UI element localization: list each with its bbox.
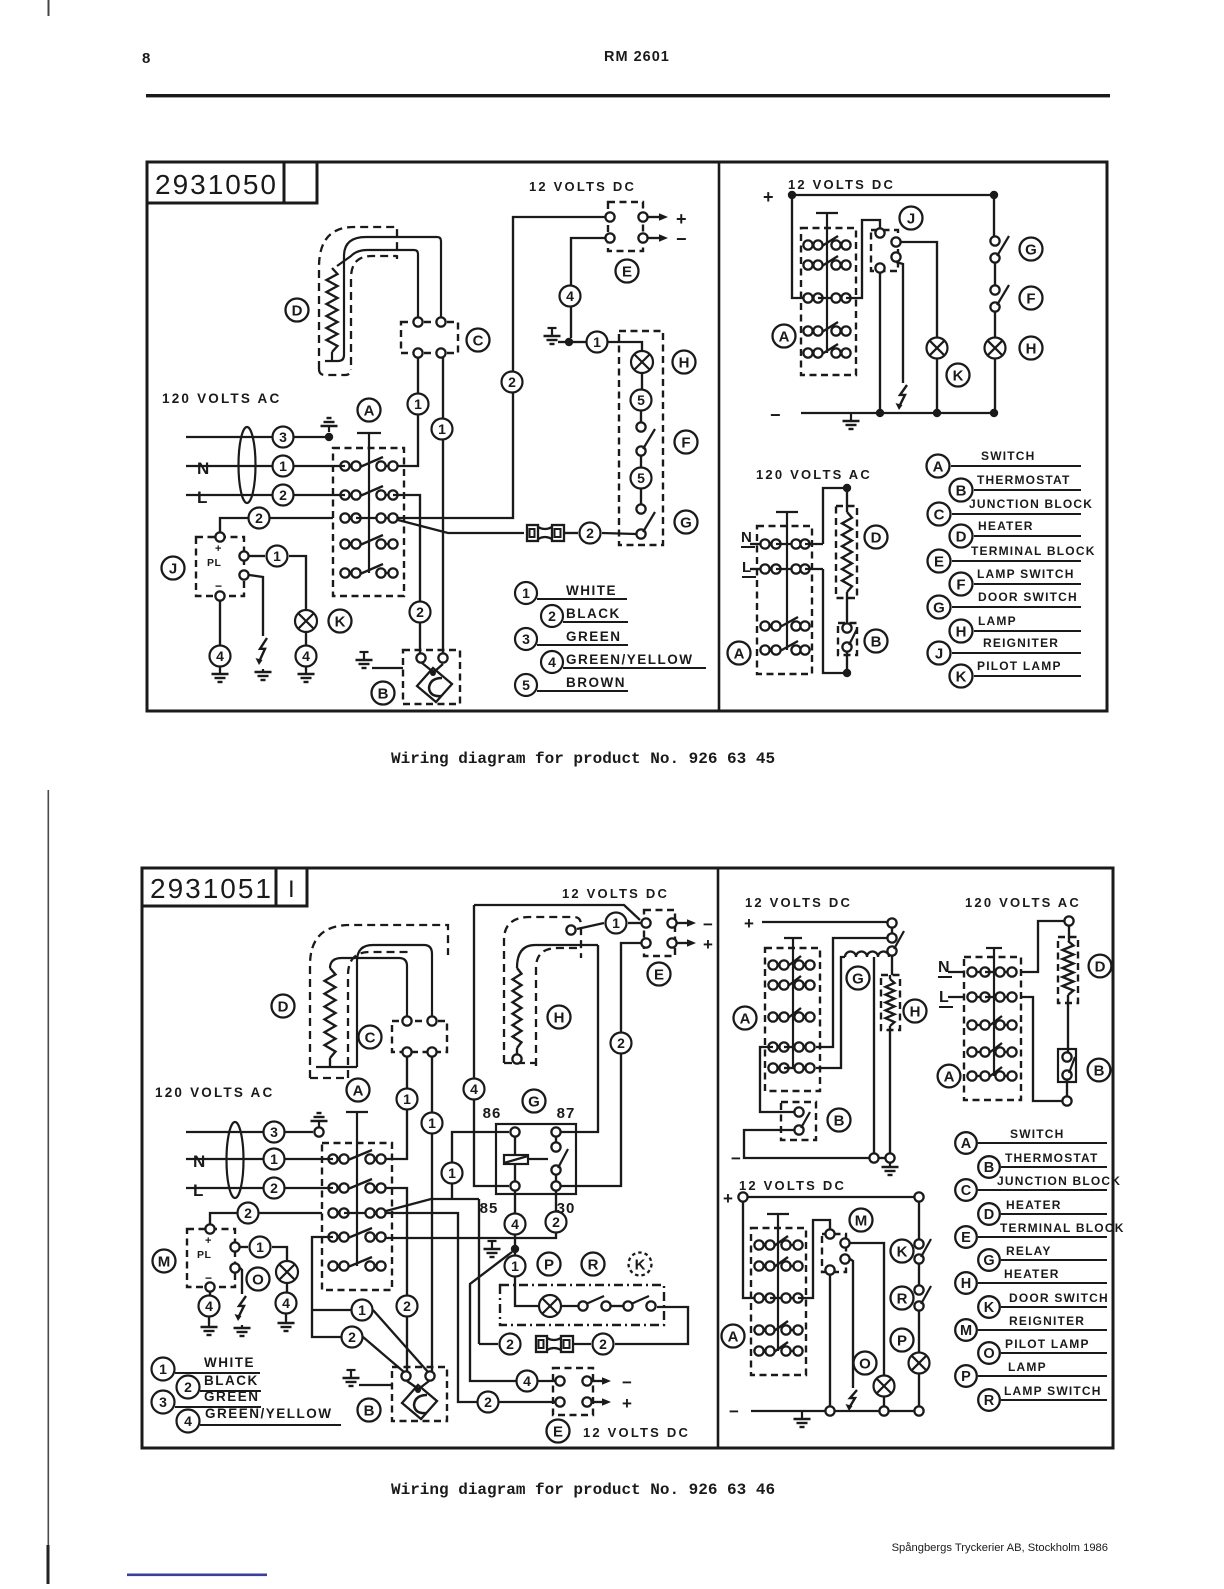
heater D dashed box (AC): [836, 506, 857, 598]
top connector: [1064, 916, 1073, 925]
svg-text:G: G: [933, 599, 945, 616]
svg-text:E: E: [961, 1230, 971, 1246]
ground at igniter B: [360, 651, 369, 653]
wire: E plus to A row3 (black 2): [398, 217, 605, 518]
legend B: THERMOSTAT: [978, 1156, 1000, 1178]
label A: [722, 1325, 745, 1348]
svg-text:J: J: [935, 645, 943, 662]
label E: [616, 260, 639, 283]
svg-text:B: B: [378, 685, 389, 702]
igniter B burner symbol: [422, 663, 432, 671]
svg-text:HEATER: HEATER: [1006, 1198, 1062, 1212]
wire: D to thermostat B: [846, 598, 848, 624]
wire: heater H to relay 87: [561, 945, 598, 1132]
svg-text:85: 85: [480, 1200, 499, 1217]
svg-text:LAMP SWITCH: LAMP SWITCH: [1004, 1384, 1102, 1398]
svg-text:PILOT LAMP: PILOT LAMP: [1005, 1337, 1090, 1351]
label H: [548, 1006, 571, 1029]
ground at input 3: [318, 1121, 320, 1127]
ground at igniter B: [347, 1369, 356, 1371]
svg-text:12 VOLTS DC: 12 VOLTS DC: [562, 886, 669, 901]
legend R: LAMP SWITCH: [978, 1389, 1000, 1411]
label E: [648, 963, 671, 986]
svg-text:SWITCH: SWITCH: [1010, 1127, 1065, 1141]
wire: node to E lower minus (green/yellow 4): [470, 1252, 516, 1381]
label A: [358, 399, 381, 422]
switch A dashed box: [964, 957, 1021, 1100]
svg-text:D: D: [956, 528, 967, 545]
label P: [538, 1253, 561, 1276]
svg-text:A: A: [933, 458, 944, 475]
svg-text:A: A: [961, 1136, 972, 1152]
wire: node to lamp chain (white 1): [573, 341, 586, 343]
terminal block E upper: [644, 910, 675, 956]
label D: [286, 299, 309, 322]
svg-text:2: 2: [270, 1180, 278, 1196]
wire: M to minus rail: [829, 1275, 831, 1406]
ground under lamp K: [305, 671, 307, 674]
junction block C: [392, 1021, 447, 1052]
svg-text:2: 2: [506, 1336, 514, 1352]
wire: B to bottom node: [846, 652, 848, 673]
ground at input 3: [328, 426, 330, 432]
svg-text:2: 2: [617, 1035, 625, 1051]
svg-text:C: C: [961, 1183, 972, 1199]
heater H lead: [517, 945, 598, 968]
spark gap (reigniter electrode): [259, 638, 267, 662]
reigniter J dashed box: [871, 230, 898, 271]
svg-text:B: B: [834, 1112, 845, 1129]
wire: mains N input (1): [186, 465, 345, 467]
svg-text:K: K: [897, 1243, 908, 1260]
svg-text:3: 3: [159, 1394, 167, 1410]
svg-text:E: E: [654, 966, 664, 983]
svg-text:F: F: [956, 576, 965, 593]
wire: blue pen mark bottom: [127, 1574, 267, 1577]
wire: DC plus rail: [792, 194, 994, 196]
legend A: SWITCH: [927, 455, 950, 478]
ground under M: [208, 1324, 210, 1327]
door switch G: [636, 504, 645, 513]
ground under spark: [262, 669, 264, 672]
heater D tube: [325, 237, 441, 361]
heater D element: [842, 512, 852, 592]
svg-text:F: F: [681, 434, 690, 451]
plus rail: [762, 921, 887, 923]
label H: [673, 351, 696, 374]
svg-text:4: 4: [205, 1298, 213, 1314]
reigniter M dashed box: [822, 1234, 846, 1272]
svg-text:+: +: [723, 1189, 733, 1208]
svg-text:2: 2: [552, 1214, 560, 1230]
svg-text:+: +: [703, 935, 713, 954]
svg-text:2: 2: [348, 1329, 356, 1345]
wire: AC top node: [843, 484, 851, 492]
legend C: JUNCTION BLOCK: [955, 1179, 977, 1201]
wire: mains green input (3): [186, 1131, 313, 1133]
svg-text:G: G: [852, 970, 864, 987]
lamp assembly HFG dashed box: [619, 331, 663, 545]
svg-text:E: E: [934, 553, 944, 570]
wire: coil to A row5: [816, 957, 845, 1068]
legend D: HEATER: [978, 1203, 1000, 1225]
svg-text:1: 1: [438, 421, 446, 437]
svg-text:12 VOLTS DC: 12 VOLTS DC: [529, 179, 636, 194]
ground under spark: [241, 1325, 243, 1328]
label B: [828, 1109, 851, 1132]
svg-text:+: +: [763, 187, 774, 207]
svg-text:2931051: 2931051: [150, 873, 273, 904]
svg-text:4: 4: [470, 1081, 478, 1097]
svg-text:K: K: [335, 613, 346, 630]
wire: relay 85 to ground node (green/yellow 4): [514, 1191, 516, 1214]
svg-text:PL: PL: [207, 557, 222, 569]
heater D element (resistor zigzag): [327, 268, 338, 352]
lamp H: [631, 351, 653, 373]
label F: [1020, 287, 1043, 310]
wire 5 brown: [641, 373, 643, 390]
switch A actuator: [357, 432, 381, 434]
svg-text:2: 2: [184, 1379, 192, 1395]
heater H dashed box: [881, 975, 900, 1030]
svg-text:2931050: 2931050: [155, 169, 278, 200]
svg-text:R: R: [588, 1256, 599, 1273]
switch A actuator: [816, 212, 838, 214]
svg-text:A: A: [353, 1082, 364, 1099]
svg-text:4: 4: [511, 1216, 519, 1232]
bottom title block 2931051: [142, 868, 276, 906]
spark gap: [849, 1390, 857, 1408]
ground node junction: [565, 338, 573, 346]
label O: [247, 1268, 270, 1291]
svg-text:1: 1: [273, 548, 281, 564]
svg-text:N: N: [193, 1152, 205, 1171]
wire 5 brown lower: [640, 456, 642, 468]
svg-text:1: 1: [159, 1361, 167, 1377]
switch A actuator: [346, 1111, 368, 1113]
svg-text:C: C: [365, 1029, 376, 1046]
ground under lamp O: [285, 1320, 287, 1323]
svg-text:3: 3: [279, 429, 287, 445]
svg-text:5: 5: [522, 677, 530, 693]
lamp switch F: [994, 263, 996, 285]
wire: B to L row: [1066, 1080, 1068, 1096]
svg-text:LAMP: LAMP: [978, 614, 1017, 628]
wire: E plus to relay 30 (black 2): [621, 943, 641, 1033]
svg-text:−: −: [215, 579, 222, 593]
wire: mains L input (2): [186, 494, 345, 496]
svg-text:B: B: [984, 1160, 994, 1176]
svg-text:B: B: [956, 482, 967, 499]
A lower poles: [972, 1024, 985, 1026]
svg-text:O: O: [859, 1355, 871, 1372]
wire: J minus to ground (4): [219, 601, 221, 645]
cable sheath ellipse: [227, 1122, 244, 1198]
ground symbol: [488, 1240, 497, 1242]
terminal block E: [608, 202, 643, 251]
wire: E minus stub with connector (white 1): [606, 913, 627, 934]
heater H element: [886, 979, 895, 1026]
switch A dashed box: [751, 1228, 806, 1375]
ground on minus rail: [850, 413, 852, 421]
wire: A row3 to reigniter M: [798, 1220, 830, 1298]
wire: left margin scan line: [48, 790, 50, 1584]
legend C: JUNCTION BLOCK: [928, 503, 951, 526]
legend M: REIGNITER: [955, 1319, 977, 1341]
wire: B to minus rail: [744, 1130, 869, 1158]
switch A poles: [773, 964, 784, 966]
legend K: PILOT LAMP: [950, 665, 973, 688]
svg-text:2: 2: [548, 608, 556, 624]
svg-text:RELAY: RELAY: [1006, 1244, 1052, 1258]
svg-text:2: 2: [599, 1336, 607, 1352]
svg-text:H: H: [910, 1003, 921, 1020]
lamp circuit P R K dashed box: [500, 1285, 664, 1325]
wire: A row3 to reigniter J: [846, 220, 880, 298]
svg-text:K: K: [635, 1256, 646, 1273]
wire: A row4 left branch: [312, 1237, 341, 1337]
label G: [523, 1090, 546, 1113]
label C: [359, 1026, 382, 1049]
svg-text:DOOR SWITCH: DOOR SWITCH: [978, 590, 1078, 604]
wire: C to igniter B right (white 1): [442, 358, 444, 653]
label H: [904, 1000, 927, 1023]
svg-text:P: P: [961, 1369, 971, 1385]
svg-text:1: 1: [612, 915, 620, 931]
crimp connector: [527, 525, 538, 541]
svg-text:1: 1: [256, 1239, 264, 1255]
label B: [865, 630, 888, 653]
door switch K: [918, 1202, 920, 1239]
terminal E minus lead: [677, 922, 687, 924]
svg-text:D: D: [984, 1207, 994, 1223]
crimp connector: [536, 1336, 547, 1352]
svg-text:B: B: [871, 633, 882, 650]
wire: A row3 to door switch G (black 2) via connector: [398, 520, 524, 533]
legend: wire colours: [152, 1358, 175, 1381]
wire: A row2 to igniter B left (black 2): [393, 495, 420, 653]
wire: M to spark electrode: [850, 1259, 853, 1388]
svg-text:2: 2: [244, 1205, 252, 1221]
svg-text:A: A: [740, 1010, 751, 1027]
svg-text:Wiring diagram for product No.: Wiring diagram for product No. 926 63 46: [391, 1481, 775, 1499]
svg-text:A: A: [734, 645, 745, 662]
svg-text:2: 2: [403, 1298, 411, 1314]
wire: plus rail to A row3: [792, 195, 808, 298]
svg-text:THERMOSTAT: THERMOSTAT: [977, 473, 1071, 487]
svg-text:L: L: [742, 559, 751, 576]
label B: [372, 682, 395, 705]
ground node: [511, 1245, 519, 1253]
svg-text:+: +: [676, 209, 687, 229]
svg-text:2: 2: [508, 374, 516, 390]
pilot lamp K: [295, 610, 317, 632]
svg-text:R: R: [897, 1290, 908, 1307]
svg-text:A: A: [944, 1068, 955, 1085]
svg-text:+: +: [622, 1394, 632, 1413]
svg-text:−: −: [205, 1271, 212, 1285]
legend A: SWITCH: [955, 1132, 977, 1154]
label O: [854, 1352, 877, 1375]
label D: [1089, 955, 1112, 978]
wire: J to minus rail: [879, 273, 881, 413]
svg-text:F: F: [1026, 290, 1035, 307]
legend E: TERMINAL BLOCK: [928, 550, 951, 573]
svg-text:L: L: [197, 488, 207, 507]
switch A poles: [759, 1244, 770, 1246]
svg-text:−: −: [770, 405, 781, 425]
label K: [629, 1253, 652, 1276]
svg-text:E: E: [553, 1423, 563, 1440]
svg-text:L: L: [193, 1181, 203, 1200]
svg-text:1: 1: [593, 334, 601, 350]
svg-text:P: P: [897, 1332, 907, 1349]
svg-text:4: 4: [282, 1295, 290, 1311]
wire: relay 30 to A row4 (black 2): [555, 1191, 557, 1212]
label E: [547, 1420, 570, 1443]
A lower poles: [765, 625, 776, 627]
svg-text:12 VOLTS DC: 12 VOLTS DC: [745, 895, 852, 910]
svg-text:R: R: [984, 1393, 995, 1409]
svg-text:3: 3: [522, 631, 530, 647]
label M: [850, 1209, 873, 1232]
wire: A row3 to E lower plus (black 2): [386, 1213, 477, 1402]
svg-text:H: H: [956, 623, 967, 640]
ground under rail: [889, 1163, 891, 1167]
lamp switch F: [636, 422, 645, 431]
wire: J to spark electrode: [249, 575, 263, 636]
svg-text:D: D: [292, 302, 303, 319]
svg-text:3: 3: [270, 1124, 278, 1140]
svg-text:120 VOLTS AC: 120 VOLTS AC: [756, 467, 872, 482]
svg-text:O: O: [252, 1271, 264, 1288]
label K: [329, 610, 352, 633]
svg-text:+: +: [205, 1235, 211, 1247]
svg-text:C: C: [934, 506, 945, 523]
door switch G: [993, 195, 995, 236]
terminal E minus lead: [648, 237, 659, 239]
label F: [675, 431, 698, 454]
svg-text:A: A: [364, 402, 375, 419]
label A: [728, 642, 751, 665]
wire: row3 branch to lamp circuit (black 2): [478, 1199, 480, 1338]
label J: [162, 557, 185, 580]
svg-text:LAMP: LAMP: [1008, 1360, 1047, 1374]
svg-text:D: D: [278, 998, 289, 1015]
switch A dashed box: [322, 1143, 392, 1290]
wire: lamp K to ground (4): [305, 632, 307, 645]
svg-text:REIGNITER: REIGNITER: [983, 636, 1059, 650]
heater H dashed enclosure: [504, 917, 581, 1063]
svg-text:−: −: [622, 1373, 632, 1392]
svg-text:A: A: [728, 1328, 739, 1345]
svg-text:M: M: [855, 1212, 868, 1229]
spark gap: [899, 385, 907, 407]
lamp switch R: [918, 1264, 920, 1285]
svg-text:4: 4: [548, 654, 556, 670]
svg-text:B: B: [364, 1402, 375, 1419]
heater D tube leads: [357, 945, 432, 1067]
legend F: LAMP SWITCH: [950, 573, 973, 596]
svg-text:Spångbergs Tryckerier AB, Stoc: Spångbergs Tryckerier AB, Stockholm 1986: [892, 1542, 1108, 1554]
svg-text:RM 2601: RM 2601: [604, 49, 670, 65]
wire: heater to minus rail: [889, 1030, 891, 1153]
wire: plus to A row3: [743, 1202, 758, 1298]
svg-text:M: M: [158, 1253, 171, 1270]
svg-text:+: +: [744, 914, 754, 933]
connector chain to door switch: [887, 933, 896, 942]
svg-text:TERMINAL BLOCK: TERMINAL BLOCK: [1000, 1221, 1125, 1235]
wire: C to switch A row1 (white 1): [398, 358, 418, 466]
door switch contact: [887, 946, 896, 955]
svg-text:1: 1: [448, 1165, 456, 1181]
svg-text:L: L: [939, 989, 949, 1006]
svg-text:BROWN: BROWN: [566, 675, 626, 690]
legend G: RELAY: [978, 1249, 1000, 1271]
wire: M minus ground (4): [209, 1292, 211, 1295]
legend G: DOOR SWITCH: [928, 596, 951, 619]
svg-text:Wiring diagram for product No.: Wiring diagram for product No. 926 63 45: [391, 750, 775, 768]
ground on minus rail: [801, 1411, 803, 1419]
svg-text:+: +: [215, 543, 221, 555]
svg-text:LAMP SWITCH: LAMP SWITCH: [977, 567, 1075, 581]
svg-text:8: 8: [142, 50, 150, 67]
wire: header rule: [146, 94, 1110, 97]
heater D element: [325, 968, 336, 1058]
switch A dashed box (right): [801, 228, 856, 375]
wire: M to pilot lamp O (white 1): [240, 1246, 248, 1248]
thermostat B box: [781, 1102, 816, 1140]
legend J: REIGNITER: [928, 642, 951, 665]
svg-text:D: D: [871, 529, 882, 546]
thermostat B box: [1058, 1049, 1076, 1082]
wire: C to A row1 (white 1): [386, 1057, 407, 1159]
svg-text:1: 1: [403, 1091, 411, 1107]
legend D: HEATER: [950, 525, 973, 548]
svg-text:N: N: [938, 959, 950, 976]
svg-text:1: 1: [511, 1258, 519, 1274]
svg-text:P: P: [544, 1256, 554, 1273]
wire: D to thermostat B: [1067, 1003, 1069, 1052]
pilot lamp O: [874, 1376, 895, 1397]
svg-text:5: 5: [637, 392, 645, 408]
pilot lamp O: [276, 1261, 298, 1283]
wire: A row3 to relay 86 (white 1): [386, 1199, 479, 1211]
svg-text:JUNCTION BLOCK: JUNCTION BLOCK: [997, 1174, 1121, 1188]
label A: [773, 325, 796, 348]
wire: to A row4: [816, 938, 887, 1047]
label G: [1020, 238, 1043, 261]
svg-text:12 VOLTS DC: 12 VOLTS DC: [739, 1178, 846, 1193]
wire: mains green input (3): [186, 436, 325, 438]
heater H element: [513, 968, 522, 1048]
wire: M to pilot lamp O: [850, 1243, 884, 1375]
wire: mains N input (1): [186, 1158, 333, 1160]
svg-text:D: D: [1095, 958, 1106, 975]
bottom diagram frame: [142, 868, 1113, 1448]
svg-text:J: J: [169, 560, 177, 577]
igniter B dashed box: [392, 1367, 447, 1421]
svg-text:1: 1: [279, 458, 287, 474]
svg-text:SWITCH: SWITCH: [981, 449, 1036, 463]
wire: E minus to ground node (green/yellow 4): [571, 238, 605, 338]
svg-text:H: H: [961, 1276, 971, 1292]
svg-text:4: 4: [302, 648, 310, 664]
svg-text:2: 2: [484, 1394, 492, 1410]
switch A poles: [345, 465, 356, 467]
svg-text:K: K: [984, 1300, 995, 1316]
wire: branch black 2 to igniter: [342, 1327, 363, 1348]
